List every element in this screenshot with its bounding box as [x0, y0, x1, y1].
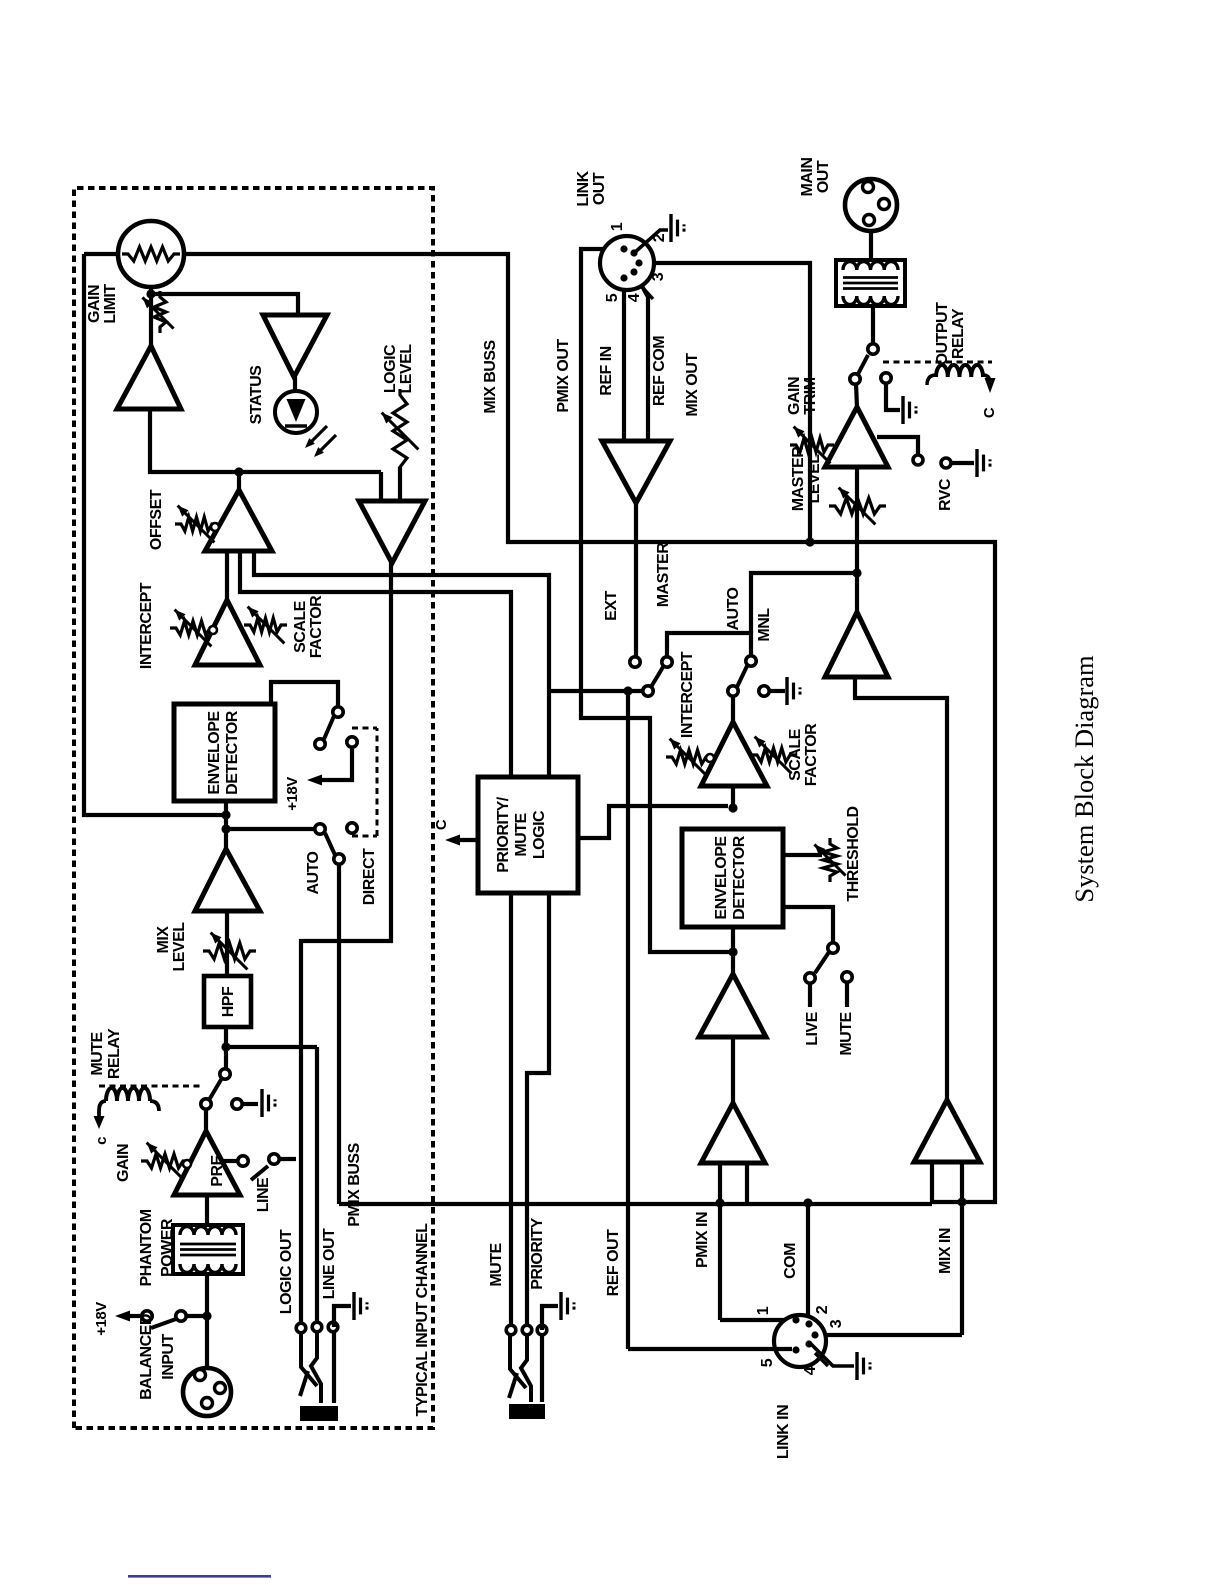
svg-text:4: 4	[626, 293, 643, 302]
svg-text:RVC: RVC	[937, 478, 954, 511]
svg-text:MUTE: MUTE	[838, 1012, 855, 1056]
svg-text:BALANCED: BALANCED	[138, 1314, 155, 1400]
svg-text:3: 3	[650, 272, 667, 281]
svg-text:C: C	[981, 407, 998, 418]
svg-text:LOGIC: LOGIC	[531, 810, 548, 859]
svg-text:C: C	[433, 819, 450, 830]
svg-text:OUT: OUT	[815, 160, 832, 193]
svg-text:LEVEL: LEVEL	[806, 454, 823, 504]
svg-text:MASTER: MASTER	[655, 542, 672, 608]
svg-text:OUTPUT: OUTPUT	[934, 302, 951, 366]
svg-text:POWER: POWER	[159, 1218, 176, 1277]
svg-text:DETECTOR: DETECTOR	[731, 835, 748, 920]
svg-text:PRIORITY: PRIORITY	[529, 1217, 546, 1289]
svg-text:REF IN: REF IN	[598, 346, 615, 395]
svg-text:5: 5	[759, 1358, 776, 1367]
svg-text:MUTE: MUTE	[513, 813, 530, 857]
svg-text:DIRECT: DIRECT	[361, 848, 378, 905]
svg-text:LOGIC: LOGIC	[382, 344, 399, 393]
svg-text:LEVEL: LEVEL	[398, 344, 415, 394]
svg-text:MIX OUT: MIX OUT	[684, 353, 701, 417]
svg-text:SCALE: SCALE	[787, 728, 804, 781]
svg-text:AUTO: AUTO	[725, 587, 742, 630]
svg-text:System Block Diagram: System Block Diagram	[1069, 655, 1099, 903]
svg-text:c: c	[93, 1137, 110, 1145]
svg-text:LINK: LINK	[575, 170, 592, 206]
svg-text:PMIX OUT: PMIX OUT	[555, 339, 572, 413]
svg-text:INTERCEPT: INTERCEPT	[679, 651, 696, 738]
svg-text:AUTO: AUTO	[305, 851, 322, 894]
svg-text:FACTOR: FACTOR	[803, 723, 820, 786]
svg-text:MUTE: MUTE	[89, 1032, 106, 1076]
svg-text:STATUS: STATUS	[248, 365, 265, 424]
svg-text:COM: COM	[782, 1243, 799, 1279]
svg-text:1: 1	[755, 1306, 772, 1315]
svg-text:ENVELOPE: ENVELOPE	[713, 836, 730, 920]
svg-text:PRIORITY/: PRIORITY/	[495, 796, 512, 873]
svg-text:TYPICAL INPUT CHANNEL: TYPICAL INPUT CHANNEL	[414, 1223, 431, 1416]
svg-text:HPF: HPF	[220, 986, 237, 1017]
svg-text:MIX BUSS: MIX BUSS	[482, 340, 499, 414]
svg-text:MIX IN: MIX IN	[937, 1228, 954, 1274]
svg-text:OFFSET: OFFSET	[148, 489, 165, 550]
svg-text:MASTER: MASTER	[790, 446, 807, 512]
svg-text:1: 1	[609, 222, 626, 231]
svg-text:+18V: +18V	[284, 777, 301, 811]
svg-text:GAIN: GAIN	[86, 285, 103, 323]
svg-text:3: 3	[828, 1319, 845, 1328]
svg-text:REF COM: REF COM	[651, 336, 668, 406]
svg-text:GAIN: GAIN	[115, 1144, 132, 1182]
svg-text:GAIN: GAIN	[786, 377, 803, 415]
svg-text:OUT: OUT	[591, 172, 608, 205]
svg-text:LINE OUT: LINE OUT	[321, 1228, 338, 1299]
svg-text:PHANTOM: PHANTOM	[138, 1209, 155, 1286]
svg-text:INTERCEPT: INTERCEPT	[138, 582, 155, 669]
svg-text:5: 5	[604, 293, 621, 302]
svg-text:RELAY: RELAY	[106, 1028, 123, 1079]
svg-text:SCALE: SCALE	[292, 600, 309, 653]
svg-text:LEVEL: LEVEL	[171, 922, 188, 972]
svg-text:MIX: MIX	[155, 926, 172, 954]
svg-text:LINK IN: LINK IN	[775, 1405, 792, 1459]
svg-text:DETECTOR: DETECTOR	[224, 710, 241, 795]
svg-text:LINE: LINE	[255, 1177, 272, 1212]
svg-text:PMIX BUSS: PMIX BUSS	[346, 1142, 363, 1226]
svg-text:FACTOR: FACTOR	[308, 595, 325, 658]
svg-text:EXT: EXT	[603, 590, 620, 620]
svg-text:LOGIC OUT: LOGIC OUT	[278, 1229, 295, 1314]
svg-text:4: 4	[802, 1366, 819, 1375]
svg-text:LIMIT: LIMIT	[102, 284, 119, 324]
svg-text:INPUT: INPUT	[160, 1334, 177, 1380]
svg-text:2: 2	[814, 1305, 831, 1314]
svg-text:PMIX IN: PMIX IN	[694, 1212, 711, 1268]
svg-text:RELAY: RELAY	[950, 308, 967, 359]
svg-text:TRIM: TRIM	[802, 377, 819, 414]
svg-text:THRESHOLD: THRESHOLD	[845, 806, 862, 901]
svg-text:ENVELOPE: ENVELOPE	[206, 711, 223, 795]
svg-text:REF OUT: REF OUT	[605, 1229, 622, 1296]
svg-text:MNL: MNL	[756, 608, 773, 642]
svg-text:MUTE: MUTE	[488, 1243, 505, 1287]
svg-text:LIVE: LIVE	[804, 1011, 821, 1045]
svg-text:MAIN: MAIN	[799, 158, 816, 197]
svg-text:+18V: +18V	[93, 1302, 110, 1336]
